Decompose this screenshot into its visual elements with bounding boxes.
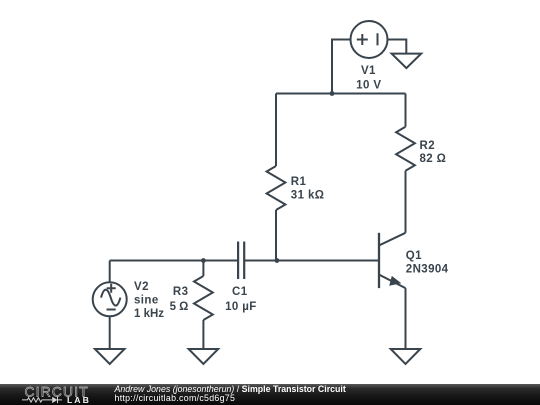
capacitor C1 [238, 242, 244, 280]
label C1 [225, 286, 257, 313]
wire V2 bottom lead [109, 316, 111, 349]
resistor R3 [194, 276, 213, 320]
svg-text:1 kHz: 1 kHz [134, 308, 164, 320]
wire R3 bottom riser [202, 320, 204, 349]
wire R1 top riser [275, 94, 277, 167]
wire V1 left lead [332, 40, 351, 94]
label R1 [291, 176, 325, 202]
voltage source V2 [93, 282, 127, 316]
wire V2 to C1 [110, 260, 238, 262]
svg-text:82 Ω: 82 Ω [420, 153, 447, 165]
voltage source V1 [351, 21, 388, 58]
svg-text:2N3904: 2N3904 [406, 264, 449, 276]
node at R1 bottom / base [275, 258, 280, 263]
svg-text:5 Ω: 5 Ω [170, 301, 189, 313]
wire V1 right lead [388, 40, 407, 54]
svg-text:LAB: LAB [67, 395, 91, 405]
node at top rail / V1 [330, 91, 335, 96]
svg-text:R1: R1 [291, 176, 307, 188]
svg-text:R2: R2 [420, 140, 436, 152]
footer logo diode doodle [58, 397, 63, 403]
wire base [244, 260, 378, 262]
node at R3 top [201, 258, 206, 263]
svg-text:V1: V1 [361, 65, 376, 77]
ground for R3 [189, 349, 219, 364]
footer logo resistor doodle [22, 398, 52, 402]
label V2 [134, 281, 164, 320]
svg-text:10 V: 10 V [356, 80, 381, 92]
ground for V2 [95, 349, 125, 364]
svg-text:31 kΩ: 31 kΩ [291, 190, 325, 202]
resistor R1 [267, 166, 286, 210]
label R3 [170, 286, 189, 313]
ground for V1 [392, 54, 422, 69]
svg-text:C1: C1 [232, 286, 248, 298]
label R2 [420, 140, 447, 165]
footer logo [0, 384, 110, 405]
resistor R2 [396, 127, 415, 171]
footer bar [0, 384, 540, 405]
wire R2 top riser [405, 94, 407, 127]
svg-text:V2: V2 [134, 281, 149, 293]
transistor Q1 [379, 233, 406, 288]
wire emitter riser [405, 288, 407, 349]
svg-text:R3: R3 [173, 286, 189, 298]
footer credit text [115, 385, 346, 404]
wire V2 top riser [109, 261, 111, 283]
label Q1 [406, 250, 449, 276]
svg-text:Q1: Q1 [406, 250, 422, 262]
svg-text:10 µF: 10 µF [225, 301, 257, 313]
wire R3 top riser [202, 261, 204, 277]
wire top rail [276, 93, 406, 95]
svg-text:sine: sine [134, 295, 159, 307]
wire R2 bottom riser (collector) [405, 171, 407, 233]
label V1 [356, 65, 381, 92]
ground for Q1 emitter [391, 349, 421, 364]
wire R1 bottom riser [275, 210, 277, 261]
